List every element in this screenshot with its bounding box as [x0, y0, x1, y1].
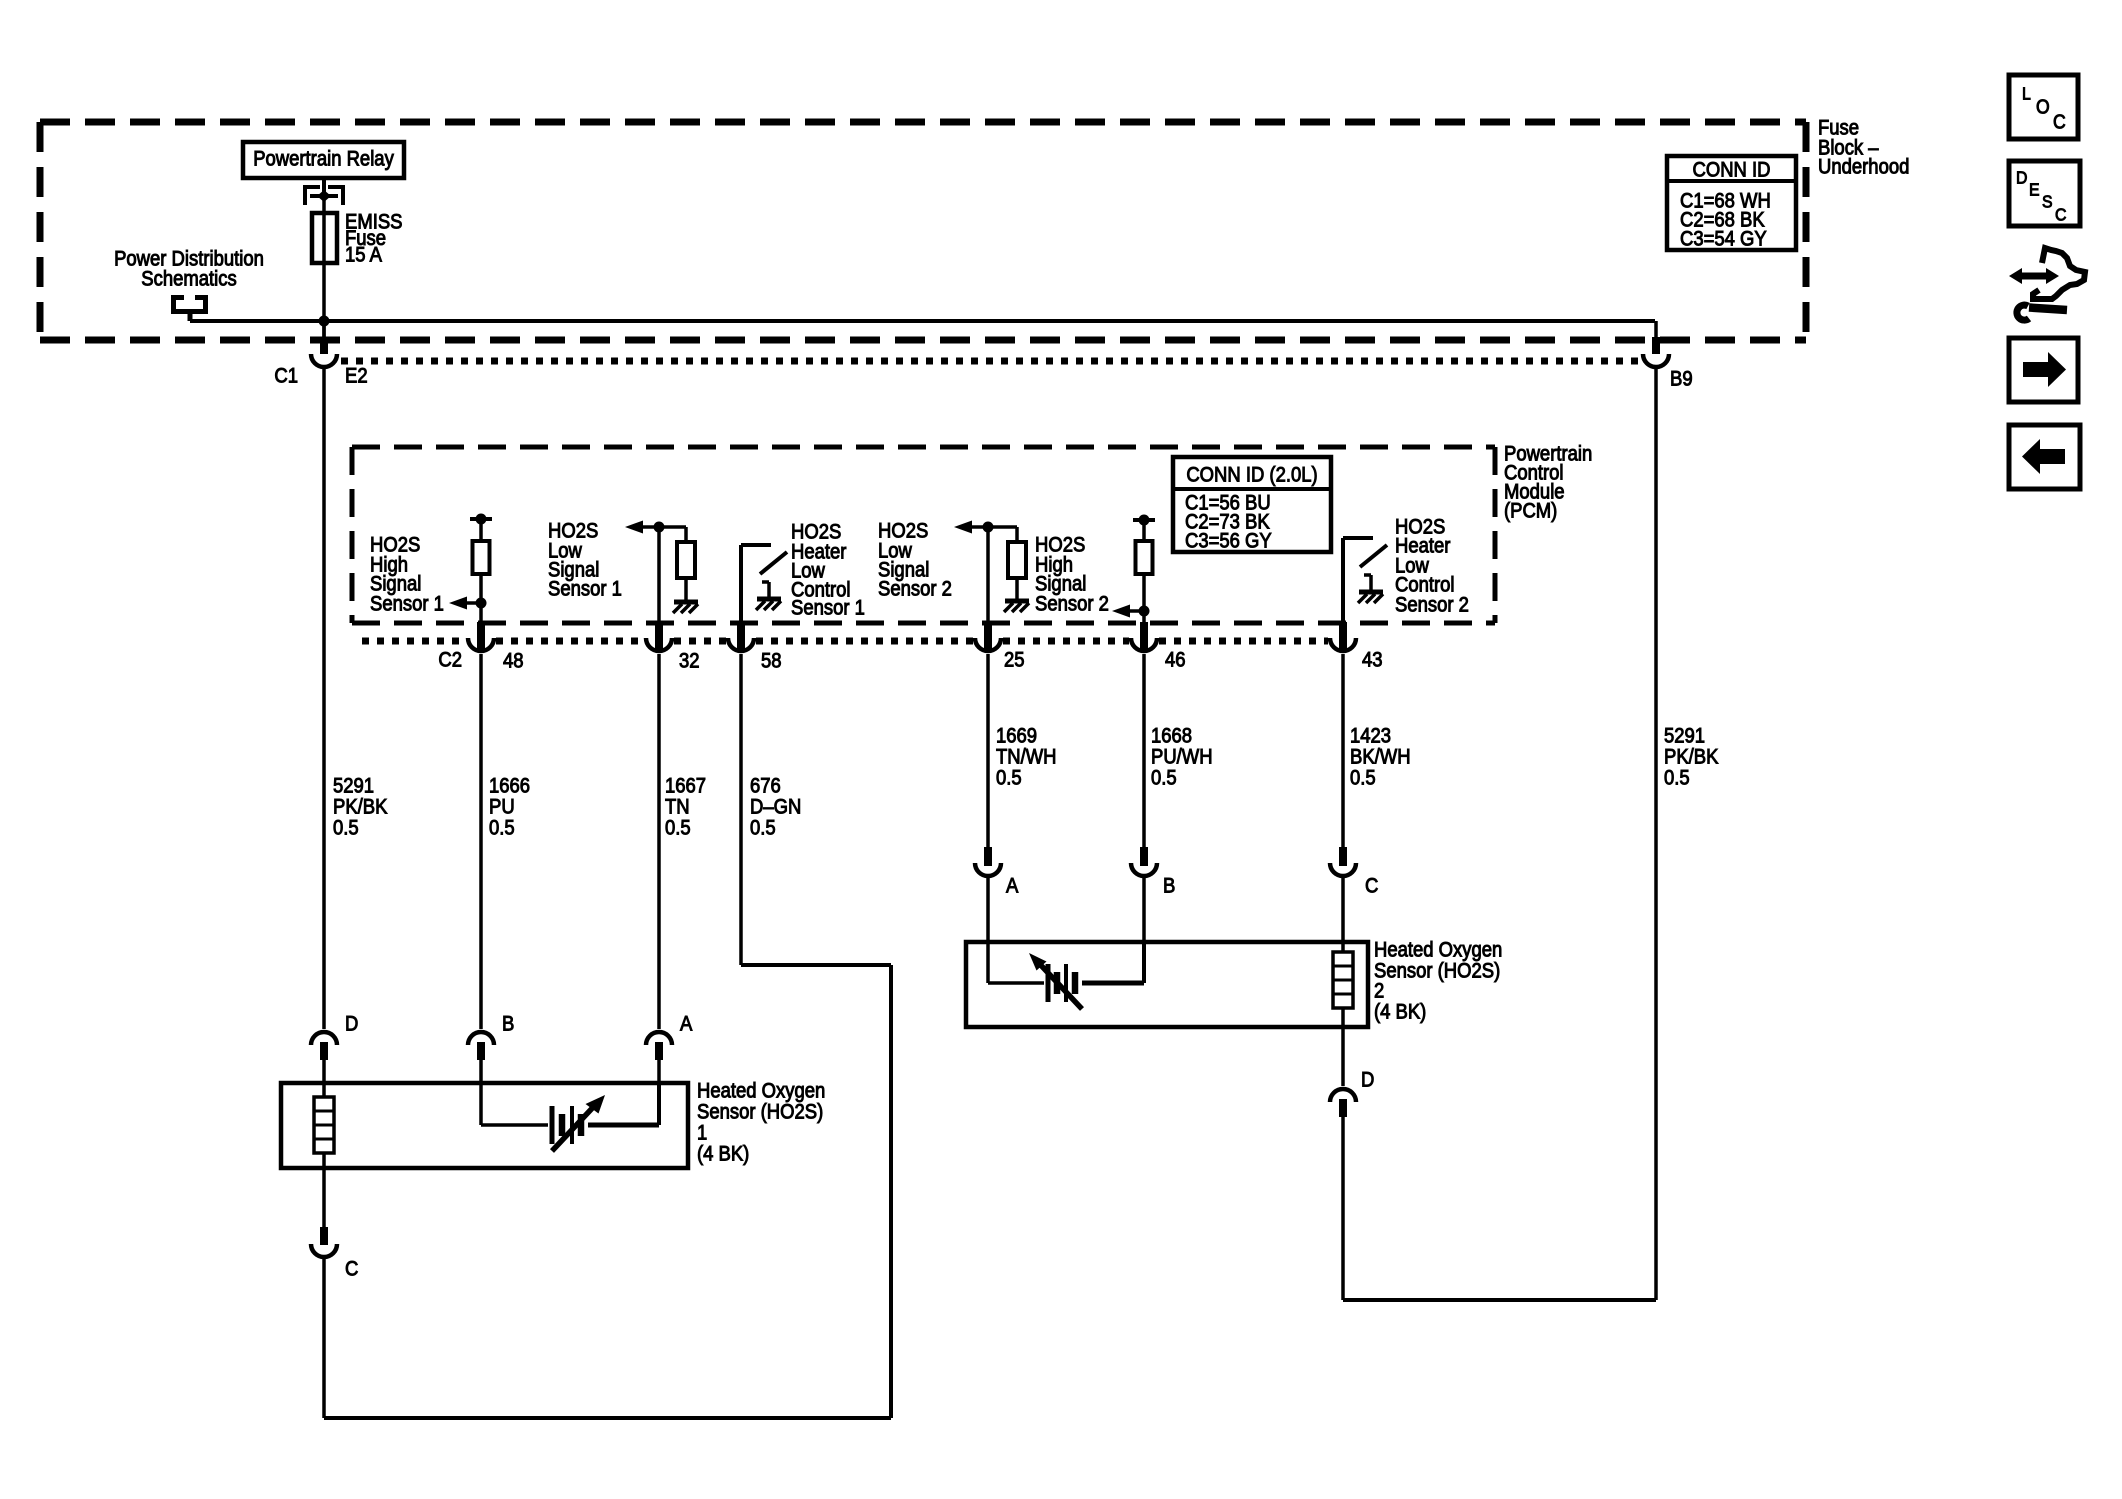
svg-text:C: C [345, 1257, 358, 1280]
svg-text:A: A [1006, 874, 1019, 897]
svg-text:(4 BK): (4 BK) [697, 1142, 749, 1165]
svg-text:Schematics: Schematics [141, 267, 237, 290]
svg-text:32: 32 [679, 649, 700, 672]
svg-text:CONN ID (2.0L): CONN ID (2.0L) [1186, 463, 1317, 486]
svg-text:0.5: 0.5 [665, 816, 691, 839]
svg-text:0.5: 0.5 [489, 816, 515, 839]
svg-text:0.5: 0.5 [1151, 766, 1177, 789]
svg-text:PU: PU [489, 795, 515, 818]
svg-text:Sensor 2: Sensor 2 [1395, 593, 1469, 616]
svg-text:46: 46 [1165, 648, 1186, 671]
svg-text:C: C [2053, 110, 2066, 132]
svg-text:Powertrain Relay: Powertrain Relay [253, 147, 394, 170]
svg-text:E: E [2029, 180, 2040, 200]
svg-text:1666: 1666 [489, 774, 530, 797]
svg-text:C1: C1 [274, 364, 298, 387]
svg-text:D: D [345, 1012, 358, 1035]
svg-text:O: O [2036, 95, 2050, 117]
svg-text:(4 BK): (4 BK) [1374, 1000, 1426, 1023]
svg-text:Sensor 1: Sensor 1 [370, 592, 444, 615]
svg-text:C3=54 GY: C3=54 GY [1680, 227, 1767, 250]
svg-text:BK/WH: BK/WH [1350, 745, 1411, 768]
svg-text:1669: 1669 [996, 724, 1037, 747]
svg-text:D–GN: D–GN [750, 795, 801, 818]
svg-text:0.5: 0.5 [1350, 766, 1376, 789]
svg-text:1423: 1423 [1350, 724, 1391, 747]
svg-text:1668: 1668 [1151, 724, 1192, 747]
svg-text:Heated Oxygen: Heated Oxygen [697, 1079, 825, 1102]
svg-text:0.5: 0.5 [750, 816, 776, 839]
svg-text:C: C [1365, 874, 1378, 897]
svg-text:0.5: 0.5 [1664, 766, 1690, 789]
svg-text:A: A [680, 1012, 693, 1035]
svg-text:C3=56 GY: C3=56 GY [1185, 529, 1272, 552]
svg-text:CONN ID: CONN ID [1693, 158, 1771, 181]
svg-text:676: 676 [750, 774, 781, 797]
svg-text:D: D [1361, 1068, 1374, 1091]
svg-text:TN: TN [665, 795, 690, 818]
svg-text:Sensor 2: Sensor 2 [878, 577, 952, 600]
svg-text:PK/BK: PK/BK [333, 795, 387, 818]
svg-text:25: 25 [1004, 648, 1025, 671]
svg-text:48: 48 [503, 649, 524, 672]
svg-text:Sensor 2: Sensor 2 [1035, 592, 1109, 615]
svg-text:E2: E2 [345, 364, 368, 387]
svg-text:0.5: 0.5 [996, 766, 1022, 789]
svg-text:B9: B9 [1670, 367, 1693, 390]
svg-text:Underhood: Underhood [1818, 155, 1909, 178]
svg-text:Sensor 1: Sensor 1 [791, 596, 865, 619]
svg-text:Sensor (HO2S): Sensor (HO2S) [1374, 959, 1500, 982]
svg-text:D: D [2016, 168, 2027, 188]
svg-text:1: 1 [697, 1121, 707, 1144]
svg-text:58: 58 [761, 649, 782, 672]
svg-text:B: B [502, 1012, 514, 1035]
svg-text:PU/WH: PU/WH [1151, 745, 1213, 768]
svg-text:Sensor (HO2S): Sensor (HO2S) [697, 1100, 823, 1123]
svg-text:C: C [2055, 205, 2066, 225]
svg-text:Sensor 1: Sensor 1 [548, 577, 622, 600]
svg-text:B: B [1163, 874, 1175, 897]
svg-text:(PCM): (PCM) [1504, 499, 1557, 522]
svg-text:PK/BK: PK/BK [1664, 745, 1718, 768]
svg-text:L: L [2022, 84, 2031, 104]
svg-text:5291: 5291 [1664, 724, 1705, 747]
svg-text:0.5: 0.5 [333, 816, 359, 839]
svg-text:15 A: 15 A [345, 243, 383, 266]
svg-text:Heated Oxygen: Heated Oxygen [1374, 938, 1502, 961]
svg-text:43: 43 [1362, 648, 1383, 671]
svg-text:1667: 1667 [665, 774, 706, 797]
svg-text:TN/WH: TN/WH [996, 745, 1057, 768]
svg-text:5291: 5291 [333, 774, 374, 797]
svg-text:C2: C2 [438, 648, 462, 671]
svg-text:S: S [2042, 192, 2053, 212]
svg-text:2: 2 [1374, 979, 1384, 1002]
